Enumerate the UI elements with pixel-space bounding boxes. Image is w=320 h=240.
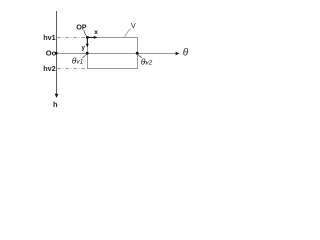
point Oc xyxy=(55,52,58,55)
svg-text:hv1: hv1 xyxy=(43,33,55,42)
leader theta-v1 xyxy=(83,54,87,57)
svg-text:v2: v2 xyxy=(145,59,152,66)
arrow y xyxy=(86,37,89,47)
point OP xyxy=(86,36,89,39)
svg-text:Oc: Oc xyxy=(46,48,56,57)
svg-text:h: h xyxy=(53,100,58,109)
arrow x xyxy=(87,36,97,39)
axis h (vertical) xyxy=(55,11,59,98)
axis theta (horizontal) xyxy=(57,52,180,56)
svg-text:v1: v1 xyxy=(76,59,83,66)
svg-text:OP: OP xyxy=(76,23,87,32)
point theta-v1 (rect left edge on theta axis) xyxy=(86,52,89,55)
leader theta-v2 xyxy=(138,54,142,57)
leader OP xyxy=(84,30,87,36)
svg-text:θ: θ xyxy=(183,47,189,58)
point theta-v2 (rect right edge on theta axis) xyxy=(136,52,139,55)
rectangle V xyxy=(88,38,138,69)
svg-text:V: V xyxy=(131,23,136,30)
svg-text:x: x xyxy=(94,29,98,36)
svg-text:hv2: hv2 xyxy=(43,64,55,73)
leader V xyxy=(125,29,131,37)
dash-dot line hv2 xyxy=(57,68,87,70)
dash-dot line hv1 xyxy=(57,37,87,39)
